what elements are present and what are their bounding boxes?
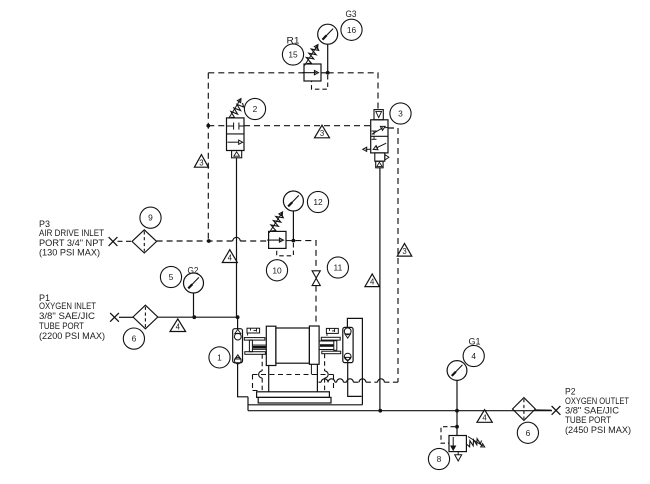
balloon 12 <box>307 191 328 212</box>
svg-text:3: 3 <box>402 247 406 256</box>
svg-text:3: 3 <box>199 158 203 167</box>
wire valve2 to valve3 dashed <box>244 125 371 127</box>
warning triangle 4 drive <box>222 250 237 263</box>
svg-text:4: 4 <box>228 254 233 263</box>
wire filter to port P2 <box>535 409 551 411</box>
filter F6 outlet <box>513 398 536 421</box>
svg-text:12: 12 <box>313 197 323 207</box>
wire valve3 drain <box>379 168 381 411</box>
svg-text:9: 9 <box>148 213 153 223</box>
node valve 2 pilot junction <box>206 124 210 128</box>
valve V3 exhaust arrow <box>366 148 371 150</box>
wire relief pilot dashed <box>441 427 455 444</box>
port P1 connection <box>110 313 119 322</box>
wire valve2 to pump inlet <box>236 158 238 317</box>
warning triangle 4 inlet <box>170 319 186 332</box>
wire check valve to pump dashed <box>315 286 317 327</box>
svg-text:(2450 PSI MAX): (2450 PSI MAX) <box>565 425 631 435</box>
pump right barrel top plate <box>321 337 340 340</box>
pump right end cap <box>309 326 319 364</box>
valve V2 flow arrow <box>228 141 239 143</box>
wire left exhaust to muffler <box>268 366 270 393</box>
node G1 junction <box>455 409 459 413</box>
svg-text:4: 4 <box>370 278 375 287</box>
regulator R10 <box>269 231 286 248</box>
svg-text:OXYGEN OUTLET: OXYGEN OUTLET <box>565 396 629 406</box>
balloon 11 <box>327 257 348 278</box>
svg-text:4: 4 <box>176 323 181 332</box>
wire pump outlet loop <box>347 318 362 404</box>
muffler <box>257 392 330 398</box>
svg-text:1: 1 <box>217 352 222 362</box>
svg-text:G3: G3 <box>346 9 357 19</box>
warning triangle 3 mid <box>315 125 330 138</box>
node pump inlet junction <box>236 315 240 319</box>
wire reg10 output <box>286 240 293 242</box>
regulator R1 <box>304 64 321 81</box>
wire right check drain <box>348 363 362 397</box>
balloon 8 <box>428 448 449 469</box>
valve V2 spring <box>231 103 244 118</box>
relief valve spring <box>467 439 482 447</box>
wire air drive stub <box>310 364 312 374</box>
pump left end cap <box>266 326 276 365</box>
wire relief valve feed <box>456 411 458 436</box>
svg-text:3: 3 <box>398 109 403 119</box>
wire G2 stem <box>193 293 195 317</box>
svg-text:6: 6 <box>132 334 137 344</box>
pump right seal box <box>326 328 338 333</box>
svg-text:(2200 PSI MAX): (2200 PSI MAX) <box>39 331 105 341</box>
pump right gas piston <box>334 341 337 351</box>
valve V2 closed symbol <box>227 125 234 127</box>
svg-text:4: 4 <box>471 351 476 361</box>
svg-text:16: 16 <box>347 25 357 35</box>
gauge G2 <box>184 273 204 293</box>
valve V3 bottom blocked port <box>372 138 377 140</box>
wire drain connector <box>247 397 249 411</box>
balloon 3 <box>390 103 411 124</box>
pump left piston rod <box>252 344 266 346</box>
wire valve 2 pilot dashed <box>208 125 226 127</box>
gauge 12 <box>283 191 303 211</box>
balloon 15 <box>282 44 303 65</box>
check valve 11 <box>312 271 320 278</box>
balloon 6 inlet <box>123 328 144 349</box>
wire spool pilot wavy dashed <box>319 381 322 383</box>
svg-text:2: 2 <box>253 104 258 114</box>
pump left gas piston <box>249 340 252 352</box>
node R1 output junction <box>326 71 330 75</box>
svg-text:5: 5 <box>169 272 174 282</box>
balloon 5 <box>160 266 181 287</box>
pump right piston rod <box>320 340 334 342</box>
svg-text:4: 4 <box>482 413 487 422</box>
node G2 junction <box>192 315 196 319</box>
balloon 1 <box>209 347 230 368</box>
wire right seal vent dashed <box>326 333 328 337</box>
filter F9 <box>132 230 157 253</box>
relief valve vent <box>457 452 459 455</box>
svg-text:3: 3 <box>320 129 324 138</box>
wire P3 to filter dashed <box>118 240 133 242</box>
pump right barrel bottom plate <box>322 351 341 354</box>
valve V3 lower box <box>375 153 385 161</box>
wire left seal vent dashed <box>247 333 249 338</box>
wire G3 stem <box>327 44 329 73</box>
filter F6 inlet <box>133 305 158 329</box>
svg-text:8: 8 <box>437 454 442 464</box>
pump cycling spool box dashed <box>253 374 334 376</box>
pump right check block <box>343 327 353 362</box>
wire left barrel drain dashed <box>261 354 263 371</box>
svg-text:15: 15 <box>288 50 298 60</box>
svg-text:G2: G2 <box>188 266 199 276</box>
warning triangle 3 left <box>194 155 208 168</box>
wire pump inlet drop <box>237 317 239 329</box>
svg-text:TUBE PORT: TUBE PORT <box>39 321 84 331</box>
balloon 2 <box>244 98 265 119</box>
pump cylinder body <box>276 328 310 363</box>
wire right barrel drain dashed <box>324 354 326 371</box>
valve V3 top blocked port <box>372 130 377 132</box>
svg-text:3/8" SAE/JIC: 3/8" SAE/JIC <box>565 406 619 416</box>
wire outlet lower jog <box>248 404 362 406</box>
warning triangle 3 right <box>397 244 412 257</box>
node valve3 drain junction <box>378 409 382 413</box>
node air junction <box>207 239 211 243</box>
balloon 16 <box>341 19 362 40</box>
wire main outlet line <box>248 410 552 412</box>
valve V3 pilot box <box>374 110 383 120</box>
gauge G1 <box>447 361 467 381</box>
valve V3 bottom flow arrow <box>376 143 386 148</box>
wire right exhaust to muffler <box>316 364 318 392</box>
wire filter6 to pump <box>158 316 238 318</box>
wire gauge12 stem <box>292 211 294 241</box>
port P3 connection <box>109 237 118 246</box>
wire filter9 to junction dashed <box>157 240 233 242</box>
balloon 10 <box>266 260 287 281</box>
valve V2 exhaust box <box>232 151 242 158</box>
gauge G3 <box>318 24 338 44</box>
node relief pilot junction <box>455 425 459 429</box>
valve V3 vent box <box>376 161 383 168</box>
relief valve RV8 <box>449 436 466 452</box>
svg-text:3/8" SAE/JIC: 3/8" SAE/JIC <box>39 311 95 321</box>
svg-text:(130 PSI MAX): (130 PSI MAX) <box>39 248 100 258</box>
svg-text:TUBE PORT: TUBE PORT <box>565 415 611 425</box>
wire air pilot top dashed <box>208 72 304 74</box>
balloon 9 <box>140 207 161 228</box>
wire reg10 to check valve dashed <box>295 241 316 270</box>
valve V3 body <box>371 120 388 153</box>
balloon 6 outlet <box>517 422 538 443</box>
wire left check drain <box>238 363 248 397</box>
wire left pilot riser dashed <box>207 73 209 241</box>
wire R1 output <box>321 72 328 74</box>
valve V3 top flow arrow <box>372 128 383 135</box>
wire P1 to filter <box>119 316 133 318</box>
wire valve3 output dashed <box>388 128 398 382</box>
wire reg10 feedback loop <box>277 243 294 256</box>
valve V2 body <box>227 118 245 151</box>
wire pilot to valve 3 <box>328 73 378 110</box>
pump left check block <box>233 329 243 363</box>
svg-text:AIR DRIVE INLET: AIR DRIVE INLET <box>39 228 104 238</box>
warning triangle 4 drain <box>365 274 380 287</box>
pump left barrel top plate <box>244 338 265 341</box>
wire G1 stem <box>456 380 458 410</box>
node reg10 junction <box>292 239 296 243</box>
svg-text:OXYGEN INLET: OXYGEN INLET <box>39 301 96 311</box>
svg-text:PORT 3/4" NPT: PORT 3/4" NPT <box>39 238 104 248</box>
warning triangle 4 outlet <box>477 410 492 423</box>
pump left seal box <box>247 328 260 333</box>
port P2 connection <box>552 406 561 415</box>
svg-text:10: 10 <box>272 265 282 275</box>
svg-text:11: 11 <box>334 263 343 273</box>
balloon 4 <box>463 345 484 366</box>
pump left barrel bottom plate <box>245 352 266 355</box>
svg-text:6: 6 <box>526 428 531 438</box>
wire R1 feedback loop <box>312 75 328 89</box>
